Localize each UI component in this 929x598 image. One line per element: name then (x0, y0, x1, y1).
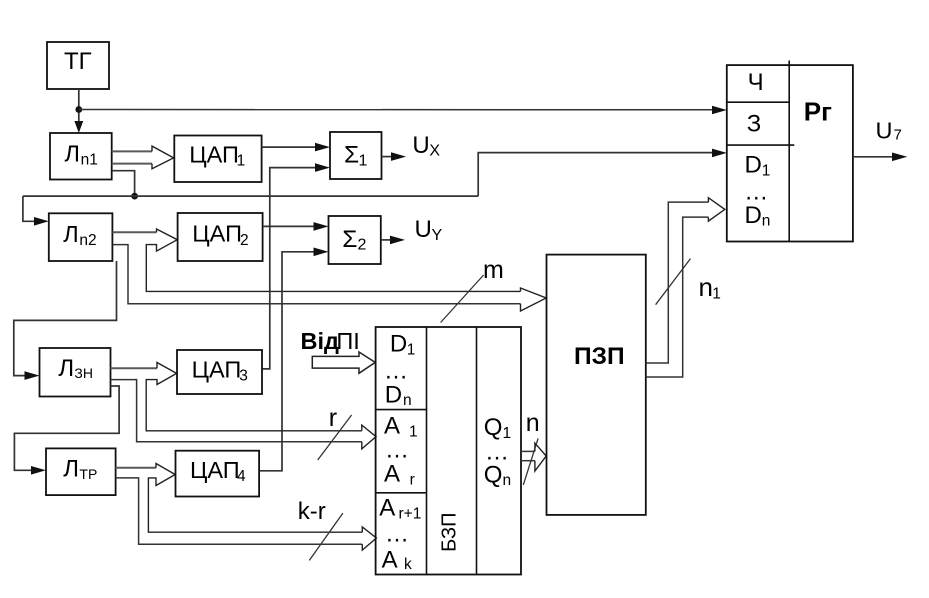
wire Ln1 lower output to junction (112, 171, 135, 196)
svg-text:ЦАП: ЦАП (189, 142, 239, 168)
block Rg (Рг) register (727, 61, 853, 242)
wire to Ln2 input (23, 196, 34, 221)
block Ln2 (49, 213, 113, 261)
svg-text:n: n (503, 472, 512, 489)
svg-text:n: n (526, 409, 540, 437)
block L3N (ЛЗН) (40, 348, 111, 397)
slash on r bus (318, 415, 352, 460)
svg-text:ТГ: ТГ (64, 48, 92, 75)
labels BZP Q outputs (484, 414, 511, 489)
svg-text:3: 3 (239, 367, 248, 384)
block arrow VidPI into BZP (312, 352, 375, 373)
label VidPI (ВідПІ) (301, 328, 360, 354)
svg-text:Q: Q (484, 461, 503, 488)
svg-text:D: D (385, 381, 402, 408)
wire L3N cascade to LTR (14, 386, 119, 470)
svg-text:r: r (410, 471, 415, 488)
svg-text:…: … (385, 521, 409, 548)
svg-text:D: D (745, 202, 762, 229)
block DAC2 (ЦАП2) (178, 213, 263, 261)
svg-text:n: n (699, 272, 713, 302)
svg-text:A: A (384, 461, 400, 488)
svg-text:7: 7 (894, 127, 902, 144)
junction dot (131, 193, 138, 200)
labels BZP Ar+1..Ak inputs (379, 495, 421, 574)
svg-text:Σ: Σ (342, 226, 357, 253)
block Sigma1 (330, 132, 382, 179)
block Ln1 (50, 133, 112, 180)
svg-text:1: 1 (762, 163, 771, 180)
bus Ln1 to DAC1 (112, 146, 174, 169)
block DAC3 (ЦАП3) (177, 350, 262, 394)
svg-text:n1: n1 (81, 152, 98, 169)
bus head r into BZP (362, 425, 376, 449)
svg-text:Л: Л (63, 221, 78, 247)
slash on n1 bus (656, 259, 691, 305)
svg-text:1: 1 (712, 286, 721, 303)
svg-text:З: З (747, 111, 762, 138)
junction dot at TG wire (75, 106, 82, 113)
bus head k-r into BZP (362, 527, 376, 550)
bus L3N to DAC3 top tail (111, 367, 158, 369)
block LTR (ЛТР) (46, 448, 116, 495)
svg-text:U: U (876, 118, 893, 144)
svg-text:Л: Л (58, 355, 74, 382)
svg-text:Σ: Σ (344, 142, 359, 169)
block Sigma2 (329, 216, 381, 264)
bus head into DAC4 with lower notch tail to k-r top line (148, 464, 362, 533)
wire y196 up to Rg Z input (478, 153, 713, 197)
svg-text:ПЗП: ПЗП (574, 343, 625, 370)
wire TG output down (78, 89, 80, 127)
svg-text:Q: Q (484, 414, 503, 441)
svg-text:1: 1 (237, 153, 246, 170)
bus head m into PZP (521, 288, 547, 311)
svg-text:m: m (483, 256, 504, 284)
slash on m bus (441, 275, 484, 323)
svg-text:D: D (390, 330, 407, 357)
svg-text:1: 1 (407, 341, 416, 358)
wire Ln2 bottom cascade to L3N (14, 261, 117, 376)
wire Rg output U7 (853, 156, 893, 158)
bus head into DAC2 with lower notch tail (146, 229, 520, 291)
svg-text:r: r (329, 404, 337, 432)
svg-text:ЦАП: ЦАП (192, 221, 242, 247)
bus LTR to DAC4 top tail (116, 467, 156, 469)
svg-text:Y: Y (432, 227, 443, 244)
svg-text:ЦАП: ЦАП (192, 356, 242, 382)
labels BZP A1..Ar inputs (384, 413, 418, 489)
svg-text:Л: Л (65, 141, 80, 167)
svg-text:Від: Від (301, 328, 340, 354)
wire Ln2 second output to m bus lower line (112, 245, 520, 304)
label U7 (876, 118, 902, 144)
svg-text:2: 2 (358, 237, 367, 254)
label n1 (699, 272, 721, 303)
wire DAC4 to Sigma2 second input (259, 252, 314, 471)
svg-text:n2: n2 (79, 232, 96, 249)
bus n1 PZP to Rg inner line (646, 202, 709, 363)
svg-text:…: … (385, 437, 409, 464)
block DAC1 (ЦАП1) (174, 136, 261, 183)
svg-text:Рг: Рг (804, 96, 832, 126)
wire DAC1 to Sigma1 (262, 146, 316, 148)
svg-text:n: n (403, 392, 412, 409)
bus Q BZP to PZP (521, 443, 546, 471)
arrow into Ln1 top (74, 121, 83, 133)
svg-text:ЗН: ЗН (74, 365, 93, 381)
svg-text:1: 1 (409, 423, 418, 440)
arrow into Ln2 (34, 217, 49, 226)
slash on k-r bus (309, 513, 343, 560)
slash on n bus (523, 438, 538, 485)
svg-text:n: n (762, 212, 771, 229)
svg-text:Л: Л (63, 456, 79, 483)
wire Sigma1 output Ux (382, 156, 393, 158)
label Ux (412, 132, 440, 160)
wire L3N second output to r bus bottom line (111, 380, 362, 442)
svg-text:k-r: k-r (298, 498, 326, 525)
block DAC4 (ЦАП4) (176, 451, 260, 497)
svg-text:A: A (382, 546, 398, 573)
svg-text:A: A (379, 495, 395, 522)
wire DAC2 to Sigma2 (263, 225, 314, 227)
bus n1 PZP to Rg outer line (646, 217, 709, 377)
svg-text:X: X (429, 143, 440, 160)
svg-text:…: … (384, 357, 408, 384)
block TG (clock generator) (47, 42, 109, 89)
bus Ln2 to DAC2 top tail (112, 231, 156, 233)
block BZP (БЗП) outer (376, 327, 521, 575)
label Uy (415, 216, 443, 244)
wire DAC3 to Sigma1 second input (262, 168, 316, 369)
svg-text:ПІ: ПІ (336, 328, 359, 354)
labels Rg pins (744, 69, 770, 229)
svg-text:Ч: Ч (748, 69, 764, 96)
svg-text:U: U (412, 132, 429, 159)
arrow into Rg Ch (712, 106, 727, 115)
svg-text:ЦАП: ЦАП (190, 457, 240, 483)
svg-text:k: k (404, 556, 412, 573)
wire LTR second output to k-r bottom line (116, 478, 363, 544)
svg-text:БЗП: БЗП (439, 513, 461, 552)
wire Sigma2 output Uy (381, 239, 391, 241)
svg-text:ТР: ТР (79, 466, 97, 482)
block PZP (ПЗП) (547, 255, 646, 515)
labels BZP D inputs (384, 330, 415, 409)
wire bus line y196 (23, 195, 478, 197)
svg-text:4: 4 (237, 468, 246, 485)
svg-text:2: 2 (240, 232, 249, 249)
wire TG to Rg Ch input (79, 109, 713, 111)
bus head n1 into Rg (708, 198, 724, 221)
svg-text:1: 1 (359, 153, 368, 170)
arrow into Rg Z (712, 149, 727, 158)
bus head into DAC3 with lower notch tail to r bus top line (146, 363, 362, 431)
svg-text:D: D (745, 152, 762, 179)
svg-text:U: U (415, 216, 432, 243)
